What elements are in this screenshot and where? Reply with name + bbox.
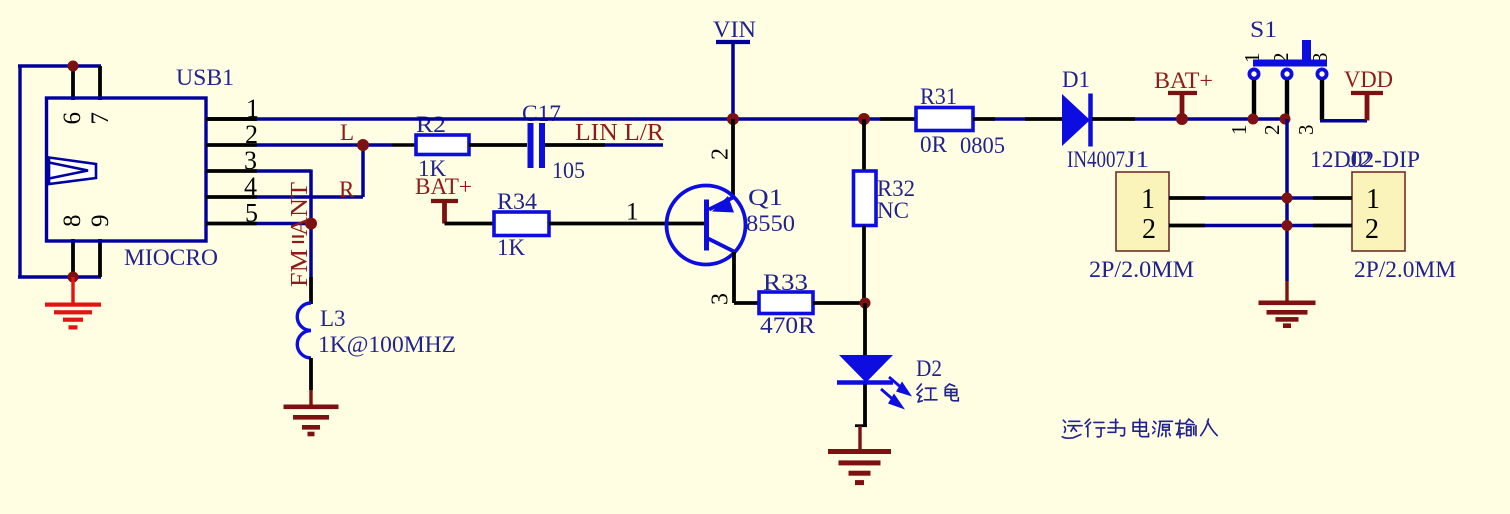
svg-text:9: 9 bbox=[87, 215, 114, 228]
svg-text:2P/2.0MM: 2P/2.0MM bbox=[1354, 257, 1456, 282]
svg-text:2: 2 bbox=[1365, 214, 1379, 245]
svg-text:J2: J2 bbox=[1348, 147, 1372, 172]
svg-text:R31: R31 bbox=[920, 84, 957, 109]
svg-text:USB1: USB1 bbox=[176, 65, 234, 90]
svg-text:470R: 470R bbox=[760, 313, 816, 338]
svg-text:2: 2 bbox=[245, 120, 258, 149]
svg-text:VIN: VIN bbox=[713, 17, 756, 42]
svg-text:FM ANT: FM ANT bbox=[287, 182, 313, 287]
svg-text:L3: L3 bbox=[320, 306, 346, 331]
svg-text:D1: D1 bbox=[1062, 67, 1090, 92]
svg-text:L: L bbox=[340, 120, 354, 145]
svg-text:3: 3 bbox=[244, 146, 257, 175]
svg-text:0805: 0805 bbox=[960, 133, 1005, 158]
svg-text:2: 2 bbox=[1260, 125, 1284, 136]
svg-text:1: 1 bbox=[1366, 184, 1380, 215]
svg-text:1K: 1K bbox=[497, 235, 526, 260]
svg-text:7: 7 bbox=[87, 112, 114, 125]
svg-text:2: 2 bbox=[708, 148, 734, 160]
svg-text:8550: 8550 bbox=[746, 211, 795, 236]
svg-text:8: 8 bbox=[59, 215, 86, 228]
svg-text:3: 3 bbox=[708, 293, 734, 305]
svg-text:5: 5 bbox=[245, 199, 258, 228]
svg-text:1: 1 bbox=[626, 199, 639, 226]
svg-text:C17: C17 bbox=[522, 101, 561, 126]
svg-text:4: 4 bbox=[244, 172, 257, 201]
svg-text:2: 2 bbox=[1142, 214, 1156, 245]
svg-text:S1: S1 bbox=[1250, 17, 1277, 42]
svg-text:1K@100MHZ: 1K@100MHZ bbox=[318, 332, 456, 357]
svg-text:6: 6 bbox=[59, 112, 86, 125]
svg-text:3: 3 bbox=[1294, 125, 1318, 136]
svg-text:MIOCRO: MIOCRO bbox=[124, 245, 218, 270]
svg-text:0R: 0R bbox=[920, 132, 948, 157]
svg-text:J1: J1 bbox=[1125, 147, 1149, 172]
svg-text:D2: D2 bbox=[916, 356, 942, 381]
svg-text:R: R bbox=[339, 177, 355, 202]
svg-text:NC: NC bbox=[877, 198, 909, 223]
svg-text:BAT+: BAT+ bbox=[415, 174, 472, 199]
svg-text:Q1: Q1 bbox=[748, 185, 783, 210]
svg-text:1: 1 bbox=[1227, 125, 1251, 136]
svg-text:VDD: VDD bbox=[1344, 67, 1393, 92]
svg-text:105: 105 bbox=[552, 158, 585, 183]
svg-text:1: 1 bbox=[1141, 184, 1155, 215]
svg-text:LIN L/R: LIN L/R bbox=[575, 120, 664, 146]
svg-text:BAT+: BAT+ bbox=[1154, 68, 1213, 93]
svg-text:IN4007: IN4007 bbox=[1067, 147, 1125, 172]
svg-text:2P/2.0MM: 2P/2.0MM bbox=[1089, 257, 1194, 282]
